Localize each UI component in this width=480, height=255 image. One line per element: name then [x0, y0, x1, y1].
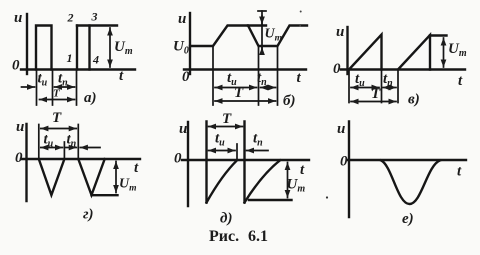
svg-text:t: t	[457, 164, 462, 180]
svg-text:0: 0	[333, 61, 341, 77]
panel a: extension line at pulse1 rise	[36, 71, 38, 105]
svg-text:tп: tп	[253, 131, 263, 149]
svg-text:0: 0	[182, 69, 190, 85]
svg-text:tи: tи	[215, 131, 225, 149]
panel a: pulse 2 falling edge	[88, 26, 90, 70]
svg-text:T: T	[234, 85, 244, 101]
panel a: t_p dimension arrow	[55, 86, 75, 88]
panel b: t_p dimension arrow	[261, 87, 276, 89]
panel a: outside arrow toward t_i	[22, 86, 35, 88]
panel a: pulse 1	[36, 26, 52, 70]
svg-text:T: T	[371, 86, 381, 102]
panel v: t_p dimension arrow	[383, 87, 396, 89]
panel g: Um reference line	[92, 194, 118, 196]
panel g: extension line tri2 start	[77, 125, 79, 158]
svg-text:tи: tи	[355, 71, 365, 89]
panel g: triangle pulse 2	[78, 159, 104, 195]
svg-text:u: u	[16, 119, 24, 135]
svg-text:4: 4	[92, 53, 99, 67]
panel b: extension line t_i start	[212, 48, 214, 106]
svg-text:tп: tп	[257, 70, 267, 88]
panel d: t_i dimension arrow	[209, 150, 236, 152]
panel v: u axis	[346, 27, 348, 74]
panel g: t_i dimension arrow	[41, 147, 63, 149]
panel d: u axis	[187, 122, 189, 206]
panel a: extension line at pulse1 fall	[52, 71, 54, 105]
svg-text:t: t	[300, 162, 305, 178]
svg-text:в): в)	[408, 92, 420, 108]
svg-text:1: 1	[67, 51, 73, 65]
svg-text:0: 0	[12, 58, 20, 74]
panel d: pulse 1 exponential recovery	[207, 160, 238, 202]
svg-text:tп: tп	[58, 71, 68, 89]
panel v: T dimension arrow	[351, 101, 396, 103]
panel v: sawtooth 2	[398, 35, 430, 70]
svg-text:tи: tи	[44, 132, 54, 150]
svg-text:tи: tи	[38, 71, 48, 89]
panel a: Um dimension arrow	[109, 28, 111, 67]
svg-text:Um: Um	[448, 41, 467, 59]
svg-text:t: t	[297, 70, 302, 86]
panel a: extension line at pulse2 rise	[76, 71, 78, 105]
speck	[326, 196, 328, 198]
panel b: t axis	[184, 68, 306, 70]
svg-text:а): а)	[84, 90, 97, 106]
svg-text:T: T	[53, 88, 61, 100]
panel g: Um dimension arrow	[115, 162, 117, 193]
panel d: pulse 1 falling edge and extension	[205, 122, 207, 203]
panel b: trapezoid waveform	[190, 26, 307, 47]
panel g: t axis	[21, 158, 140, 160]
panel a: T dimension arrow	[40, 99, 75, 101]
panel b: extension line t_p end	[277, 48, 279, 106]
svg-text:2: 2	[67, 11, 74, 25]
panel v: Um reference line	[430, 34, 447, 36]
panel b: Um arrow line with outside arrowheads	[258, 11, 266, 54]
panel g: T dimension arrow	[41, 128, 77, 130]
panel v: Um dimension arrow	[443, 38, 445, 67]
svg-text:0: 0	[340, 154, 348, 170]
panel g: extension line tri1 start	[38, 125, 40, 158]
speck	[299, 25, 301, 27]
svg-text:Um: Um	[265, 27, 283, 44]
svg-text:t: t	[134, 160, 139, 176]
svg-text:u: u	[14, 10, 22, 26]
svg-text:3: 3	[91, 10, 98, 24]
panel a: t axis	[21, 68, 135, 70]
svg-text:tп: tп	[67, 132, 77, 150]
svg-text:г): г)	[83, 207, 94, 223]
svg-text:Рис.: Рис.	[209, 228, 239, 245]
svg-text:е): е)	[402, 211, 414, 227]
svg-text:Um: Um	[287, 177, 306, 195]
panel d: t_p outside arrow	[247, 150, 269, 152]
panel b: top Um reference line	[248, 24, 266, 26]
panel e: bell pulse	[381, 160, 440, 204]
panel g: t_p outside arrow	[80, 147, 100, 149]
panel a: pulse 2 rising edge	[76, 26, 78, 70]
panel b: t_i dimension arrow	[215, 87, 257, 89]
svg-text:U0: U0	[173, 39, 189, 57]
panel d: pulse 2 exponential recovery	[245, 160, 281, 202]
panel v: extension line saw1 drop	[381, 71, 383, 103]
svg-text:T: T	[52, 110, 62, 126]
panel d: extension line middle	[236, 144, 238, 159]
panel v: t axis	[341, 68, 465, 70]
svg-text:0: 0	[174, 151, 182, 167]
panel e: u axis	[348, 122, 350, 218]
panel d: Um dimension arrow	[287, 163, 289, 198]
panel d: pulse 2 falling edge and extension	[243, 122, 245, 203]
panel b: T dimension arrow	[215, 100, 276, 102]
panel e: t axis	[348, 159, 466, 161]
svg-text:tп: tп	[383, 71, 393, 89]
svg-text:Um: Um	[119, 177, 137, 194]
svg-text:u: u	[179, 121, 187, 137]
svg-text:6.1: 6.1	[248, 228, 268, 245]
panel b: u axis	[189, 13, 191, 74]
panel g: t_p arrow right	[66, 147, 77, 149]
svg-text:t: t	[458, 73, 463, 89]
panel g: extension line tri1 end	[63, 142, 65, 158]
panel v: extension line saw1 start	[348, 71, 350, 103]
panel d: T dimension arrow	[209, 126, 243, 128]
panel d: Um reference line	[249, 199, 292, 201]
svg-text:б): б)	[283, 93, 295, 109]
svg-text:u: u	[337, 121, 345, 137]
panel v: extension line saw2 start	[397, 71, 399, 103]
panel g: u axis	[25, 124, 27, 201]
panel a: pulse 2 top and Um reference line	[77, 24, 117, 26]
panel a: u axis	[26, 14, 28, 74]
svg-text:0: 0	[15, 150, 23, 166]
panel v: sawtooth 1	[349, 35, 382, 70]
svg-text:u: u	[336, 24, 344, 40]
panel v: t_i dimension arrow	[351, 87, 379, 89]
svg-text:д): д)	[220, 211, 232, 227]
svg-text:Um: Um	[114, 39, 133, 57]
panel b: extension line t_i end	[258, 48, 260, 106]
svg-text:T: T	[222, 111, 232, 127]
panel d: t axis	[182, 159, 309, 161]
svg-text:u: u	[178, 11, 186, 27]
panel g: triangle pulse 1	[39, 159, 65, 195]
speck	[300, 11, 302, 13]
